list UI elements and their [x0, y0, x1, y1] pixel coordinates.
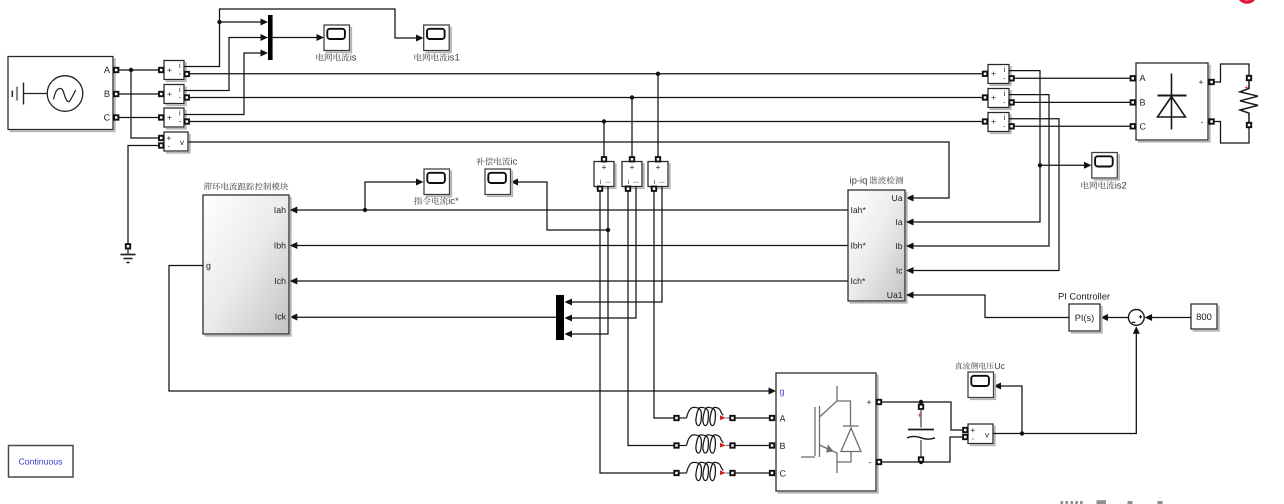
voltage measurement block V1: [166, 134, 190, 153]
junction compensation current ic tap: [606, 228, 610, 232]
arrow into PI controller: [1101, 314, 1109, 321]
svg-text:B: B: [104, 89, 110, 99]
i2 minus port: [185, 95, 189, 99]
svg-text:ip-iq: ip-iq: [850, 176, 868, 187]
svg-text:Ibh: Ibh: [274, 241, 286, 251]
diode rectifier bridge block: [1138, 65, 1210, 142]
svg-text:C: C: [1140, 121, 1147, 131]
arrow into hysteresis Ich: [290, 278, 298, 285]
svg-text:ic*: ic*: [448, 196, 459, 207]
current measurement block i2 (phase B): [166, 86, 186, 105]
label 电网电流is: [316, 53, 323, 61]
bridge port -: [877, 460, 881, 464]
wire R3 current signal to ip-iq Ic: [914, 119, 1060, 271]
source internal ground bars: [11, 91, 13, 98]
scope 补偿电流ic: [487, 171, 513, 197]
rectifier port B: [1131, 100, 1135, 104]
powergui block Continuous: [9, 446, 74, 478]
wire sensor2 minus down to inductor B: [628, 191, 674, 446]
wire junction to mux in1: [220, 21, 263, 23]
i3 plus port: [159, 115, 163, 119]
junction grid current is2 tap: [1038, 163, 1042, 167]
arrow into scope is: [317, 34, 325, 41]
svg-text:Ib: Ib: [895, 241, 902, 251]
arrow mux4 in1: [565, 299, 573, 306]
svg-text:+: +: [167, 89, 172, 99]
grid current measurement block R3: [990, 114, 1011, 133]
wire Ich* to Ich: [295, 280, 848, 282]
svg-text:Ua: Ua: [892, 193, 903, 203]
label 滞环电流跟踪控制模块: [204, 182, 212, 190]
IGBT bridge block: [778, 375, 878, 493]
svg-text:A: A: [780, 414, 786, 424]
label 补偿电流ic: [476, 157, 484, 165]
junction capacitor top: [919, 400, 923, 404]
arrow into scope Uc: [994, 383, 1002, 390]
arrow into scope is2: [1084, 162, 1092, 169]
sensor 1 top port: [602, 157, 606, 161]
rectifier diode symbol: [1171, 74, 1173, 130]
arrow into bridge g: [769, 388, 777, 395]
wire inductor B to bridge: [735, 445, 769, 447]
wire R1 current signal to ip-iq Ia: [914, 71, 1041, 222]
R2 plus port: [983, 95, 987, 99]
svg-text:800: 800: [1196, 311, 1212, 322]
svg-text:+: +: [167, 65, 172, 75]
label 电网电流is2: [1081, 181, 1088, 189]
wire R1 to rectifier A: [1014, 77, 1130, 79]
wire tap to scope 电网电流is2: [1040, 164, 1086, 166]
svg-text:Ia: Ia: [895, 217, 902, 227]
inductor phase C: [680, 472, 687, 474]
phase B distribution wire: [189, 97, 983, 99]
svg-text:+: +: [991, 69, 996, 79]
hysteresis current tracking control subsystem: [205, 197, 291, 336]
svg-text:is: is: [350, 53, 357, 64]
compensation current sensor 3: [650, 163, 670, 188]
arrow mux1 in2: [261, 34, 269, 41]
wire mux1 to scope is: [273, 37, 319, 39]
arrow mux4 in2: [565, 315, 573, 322]
svg-text:+: +: [630, 163, 635, 172]
svg-text:Ic: Ic: [896, 266, 903, 276]
scope 电网电流is1: [426, 27, 452, 53]
Vdc plus port: [963, 428, 967, 432]
wire R3 to rectifier C: [1014, 125, 1130, 127]
V1 minus port: [159, 143, 163, 147]
arrow into ip-iq Ic: [906, 267, 914, 274]
arrow mux1 in3: [261, 50, 269, 57]
arrow into sum: [1145, 314, 1153, 321]
svg-text:—: —: [633, 180, 639, 186]
svg-text:g: g: [206, 261, 211, 271]
svg-text:Uc: Uc: [994, 361, 1005, 371]
arrow into ip-iq Ia: [906, 219, 914, 226]
sensor 3 top port: [656, 157, 660, 161]
svg-text:is1: is1: [448, 53, 460, 64]
svg-text:B: B: [780, 441, 786, 451]
svg-text:—: —: [605, 180, 611, 186]
wire sensor1 signal down to mux4 in3: [571, 187, 608, 335]
arrow into hysteresis Iah: [290, 207, 298, 214]
three-phase programmable voltage source block: [10, 58, 115, 131]
arrow into hysteresis Ibh: [290, 242, 298, 249]
IGBT symbol with anti-parallel diode: [801, 386, 861, 473]
compensation current sensor 1: [596, 163, 616, 188]
R1 plus port: [983, 72, 987, 76]
load resistor (series RLC branch): [1240, 80, 1258, 122]
arrow into scope is1: [416, 35, 424, 42]
wire phase A down to sensor: [657, 74, 659, 159]
wire sensor1 minus down to inductor C: [600, 191, 674, 473]
svg-text:C: C: [104, 113, 111, 123]
svg-text:-: -: [1201, 117, 1204, 127]
wire bridge + to Vdc measurement: [882, 402, 963, 430]
voltage measurement block Vdc: [970, 426, 995, 446]
inductor phase C right port: [730, 471, 734, 475]
svg-text:+: +: [602, 163, 607, 172]
current measurement block i1 (phase A): [166, 62, 186, 81]
wire tap to scope Uc: [1001, 386, 1023, 434]
phase A distribution wire: [189, 73, 983, 75]
faint watermark text fragment (bottom): [1061, 500, 1163, 504]
svg-text:+: +: [167, 112, 172, 122]
wire R2 to rectifier B: [1014, 101, 1130, 103]
svg-text:Ua1: Ua1: [887, 290, 903, 300]
wire ic tap to scope 补偿电流ic: [517, 182, 609, 230]
wire phase C down to sensor: [603, 122, 605, 160]
rectifier port -: [1209, 119, 1213, 123]
label 直流侧电压Uc: [955, 362, 962, 369]
svg-text:ic: ic: [511, 157, 518, 168]
wire sensor3 minus down to inductor A: [654, 191, 674, 418]
inductor phase A: [680, 417, 687, 419]
wire inductor A to bridge: [735, 417, 769, 419]
wire sensor3 signal down to mux4 in1: [571, 187, 662, 303]
svg-text:+: +: [1198, 77, 1203, 87]
svg-text:Ich*: Ich*: [851, 276, 866, 286]
svg-text:is2: is2: [1115, 181, 1127, 192]
junction phase C drop: [602, 119, 606, 123]
mux1 (3-phase source currents): [268, 15, 273, 60]
i2 plus port: [159, 92, 163, 96]
arrow mux1 in1: [261, 19, 269, 26]
capacitor C1: [919, 405, 923, 409]
wire sum to PI controller: [1107, 317, 1129, 319]
wire phase B down to sensor: [631, 98, 633, 160]
svg-text:+: +: [866, 397, 871, 407]
bridge port A: [770, 416, 774, 420]
arrow into ip-iq Ib: [906, 243, 914, 250]
svg-text:+: +: [656, 163, 661, 172]
bridge port C: [770, 471, 774, 475]
svg-text:A: A: [104, 65, 111, 75]
label 指令电流ic*: [414, 197, 422, 205]
R3 plus port: [983, 119, 987, 123]
bridge port +: [877, 400, 881, 404]
bridge port B: [770, 443, 774, 447]
Vdc minus port: [963, 435, 967, 439]
svg-text:Continuous: Continuous: [19, 456, 64, 466]
svg-text:-: -: [869, 457, 872, 467]
R3 minus port: [1009, 124, 1013, 128]
junction phase A drop: [656, 72, 660, 76]
scope 电网电流is: [326, 27, 352, 53]
source port C: [114, 115, 118, 119]
PI controller block: [1071, 306, 1102, 333]
svg-text:PI(s): PI(s): [1075, 313, 1094, 323]
arrow into ip-iq Ua1: [906, 292, 914, 299]
svg-text:—: —: [659, 180, 665, 186]
arrow into ip-iq Ua: [906, 195, 914, 202]
junction command current tap: [363, 208, 367, 212]
svg-text:Ich: Ich: [274, 276, 286, 286]
arrow into scope 指令电流ic*: [416, 179, 424, 186]
inductor phase A right port: [730, 416, 734, 420]
inductor phase B left port: [674, 443, 678, 447]
svg-text:+: +: [991, 92, 996, 102]
svg-text:PI Controller: PI Controller: [1058, 291, 1110, 302]
svg-text:C: C: [780, 469, 787, 479]
svg-text:Ick: Ick: [275, 312, 287, 322]
wire i1 signal up and across top to scope is1: [184, 9, 419, 67]
phase C distribution wire: [189, 121, 983, 123]
junction on i1 signal: [217, 20, 221, 24]
svg-text:B: B: [1140, 97, 1146, 107]
label 电网电流is1: [414, 53, 421, 61]
arrow into sum from below: [1133, 326, 1140, 334]
sum block (reference minus Vdc): [1128, 310, 1144, 326]
mux4 (compensation currents): [556, 295, 564, 340]
arrow into scope 补偿电流ic: [511, 179, 519, 186]
ground symbol: [126, 244, 130, 248]
wire ground to voltage meas V-: [128, 146, 159, 245]
wire PI output to ip-iq Ua1: [914, 295, 1070, 318]
source port A: [114, 68, 118, 72]
red logo fragment (top-right): [1238, 0, 1255, 2]
rectifier port +: [1209, 80, 1213, 84]
svg-text:g: g: [780, 387, 785, 397]
arrow mux4 in3: [565, 331, 573, 338]
wire Vdc output to sum: [993, 333, 1136, 434]
grid current measurement block R1: [990, 66, 1011, 85]
constant block 800: [1193, 306, 1219, 331]
inductor phase A left port: [674, 416, 678, 420]
wire i2 signal to mux in2: [184, 38, 263, 91]
arrow into hysteresis Ick: [290, 314, 298, 321]
junction phase B drop: [630, 95, 634, 99]
junction capacitor bottom: [919, 460, 923, 464]
wire source A to current meas i1: [119, 69, 162, 71]
sensor 3 bottom-left port: [652, 187, 656, 191]
wire sensor2 signal down to mux4 in2: [571, 187, 636, 319]
wire R2 current signal to ip-iq Ib: [914, 95, 1050, 246]
wire bridge - return: [882, 437, 963, 462]
source port B: [114, 92, 118, 96]
i1 minus port: [185, 72, 189, 76]
current measurement block i3 (phase C): [166, 110, 186, 129]
scope 指令电流ic*: [426, 171, 452, 197]
rectifier port C: [1131, 124, 1135, 128]
svg-text:Iah: Iah: [274, 205, 286, 215]
R1 minus port: [1009, 76, 1013, 80]
wire source C to current meas i3: [119, 117, 162, 119]
inductor phase B right port: [730, 443, 734, 447]
svg-text:+: +: [991, 116, 996, 126]
sensor 2 bottom-left port: [626, 187, 630, 191]
wire junction to voltage meas V+: [131, 70, 159, 138]
rectifier port A: [1131, 76, 1135, 80]
i1 plus port: [159, 68, 163, 72]
wire i3 signal to mux in3: [184, 53, 263, 115]
wire constant 800 to sum: [1152, 317, 1191, 319]
svg-text:A: A: [1140, 73, 1146, 83]
svg-text:Ibh*: Ibh*: [851, 241, 867, 251]
compensation current sensor 2: [624, 163, 644, 188]
junction Vdc scope tap: [1020, 431, 1024, 435]
wire hysteresis g output to IGBT bridge gate: [169, 266, 770, 392]
wire rectifier + to load resistor: [1214, 64, 1249, 82]
inductor phase B: [680, 445, 687, 447]
load resistor top port: [1247, 76, 1251, 80]
ip-iq harmonic detection subsystem: [850, 192, 907, 303]
load resistor bottom port: [1247, 123, 1251, 127]
wire load resistor to rectifier -: [1214, 122, 1249, 144]
grid current measurement block R2: [990, 90, 1011, 109]
inductor phase C left port: [674, 471, 678, 475]
wire inductor C to bridge: [735, 472, 769, 474]
V1 plus port: [159, 136, 163, 140]
sensor 1 bottom-left port: [598, 187, 602, 191]
scope 电网电流is2: [1094, 154, 1120, 180]
scope 直流侧电压Uc: [970, 374, 996, 400]
sensor 2 top port: [630, 157, 634, 161]
wire Iah* to Iah: [295, 209, 848, 211]
wire mux4 output to hysteresis Ick: [295, 316, 556, 318]
i3 minus port: [185, 119, 189, 123]
wire Ibh* to Ibh: [295, 245, 848, 247]
wire V1 output to ip-iq Ua input: [188, 142, 949, 198]
R2 minus port: [1009, 100, 1013, 104]
junction node on phase A: [129, 68, 133, 72]
wire source B to current meas i2: [119, 93, 162, 95]
svg-text:Iah*: Iah*: [851, 205, 867, 215]
wire tap to scope 指令电流ic*: [365, 182, 418, 210]
source sine symbol: [47, 76, 83, 112]
